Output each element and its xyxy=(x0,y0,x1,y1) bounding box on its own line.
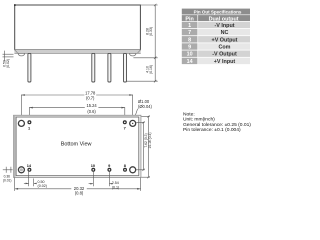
svg-text:Bottom View: Bottom View xyxy=(61,141,92,147)
svg-text:Com: Com xyxy=(219,45,231,51)
svg-text:Pin Out Specifications: Pin Out Specifications xyxy=(194,10,242,15)
svg-text:Dual output: Dual output xyxy=(209,16,239,22)
svg-text:15.24: 15.24 xyxy=(86,103,97,108)
svg-text:10: 10 xyxy=(187,52,193,58)
svg-text:Pin tolerance: ±0.1 (0.004): Pin tolerance: ±0.1 (0.004) xyxy=(183,127,241,133)
svg-text:(0.6): (0.6) xyxy=(87,109,96,114)
svg-text:(0.02): (0.02) xyxy=(38,184,47,188)
svg-text:7: 7 xyxy=(188,30,191,36)
svg-text:(0.33): (0.33) xyxy=(149,27,153,36)
svg-text:(0.02): (0.02) xyxy=(6,59,10,68)
svg-text:10.16 (0.4): 10.16 (0.4) xyxy=(148,133,152,149)
svg-text:8: 8 xyxy=(188,37,191,43)
svg-text:7: 7 xyxy=(124,125,126,130)
svg-text:Pin: Pin xyxy=(185,16,193,22)
svg-text:(0.8): (0.8) xyxy=(75,191,84,196)
svg-text:7.62 (0.3): 7.62 (0.3) xyxy=(144,133,148,147)
svg-text:(0.1): (0.1) xyxy=(112,185,119,189)
svg-text:General tolerance: ±0.25 (0.01: General tolerance: ±0.25 (0.01) xyxy=(183,122,251,128)
svg-text:-V Output: -V Output xyxy=(212,52,237,58)
svg-text:14: 14 xyxy=(187,59,193,65)
svg-text:1: 1 xyxy=(188,23,191,29)
svg-text:10: 10 xyxy=(91,163,95,168)
svg-text:Unit: mm(inch): Unit: mm(inch) xyxy=(183,117,215,123)
svg-text:-V Input: -V Input xyxy=(214,23,234,29)
svg-text:9: 9 xyxy=(188,45,191,51)
svg-text:(0.7): (0.7) xyxy=(86,95,95,100)
svg-text:+V Input: +V Input xyxy=(214,59,236,65)
svg-text:+V Output: +V Output xyxy=(212,37,238,43)
svg-text:Note:: Note: xyxy=(183,111,195,117)
svg-text:(0.16): (0.16) xyxy=(149,65,153,74)
svg-text:NC: NC xyxy=(221,30,229,36)
svg-text:(0.01): (0.01) xyxy=(3,178,12,182)
svg-text:(Ø0.04): (Ø0.04) xyxy=(138,104,153,109)
